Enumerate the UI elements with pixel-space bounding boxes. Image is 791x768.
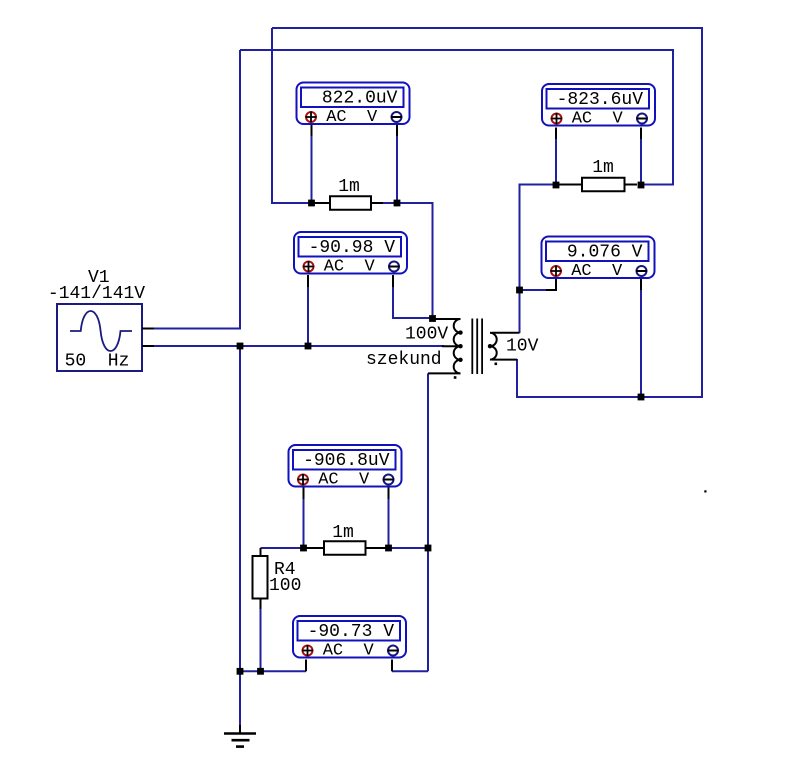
svg-text:AC V: AC V: [323, 642, 375, 661]
svg-text:AC V: AC V: [571, 262, 623, 281]
svg-text:1m: 1m: [338, 177, 360, 197]
svg-text:-823.6uV: -823.6uV: [557, 90, 644, 110]
svg-text:50 Hz: 50 Hz: [65, 352, 130, 372]
svg-text:10V: 10V: [506, 337, 539, 357]
svg-text:-90.73 V: -90.73 V: [308, 622, 395, 642]
svg-text:szekund: szekund: [366, 350, 442, 370]
svg-text:-141/141V: -141/141V: [48, 284, 145, 304]
svg-text:9.076 V: 9.076 V: [567, 243, 643, 263]
svg-text:AC V: AC V: [326, 108, 378, 127]
svg-text:100: 100: [269, 576, 301, 596]
svg-text:1m: 1m: [592, 158, 614, 178]
svg-text:-90.98 V: -90.98 V: [309, 238, 396, 258]
svg-text:AC V: AC V: [318, 471, 370, 490]
svg-text:822.0uV: 822.0uV: [322, 89, 398, 109]
svg-text:-906.8uV: -906.8uV: [303, 451, 390, 471]
svg-text:AC V: AC V: [572, 110, 624, 129]
svg-text:AC V: AC V: [324, 258, 376, 277]
svg-text:1m: 1m: [332, 523, 354, 543]
svg-text:100V: 100V: [405, 325, 448, 345]
